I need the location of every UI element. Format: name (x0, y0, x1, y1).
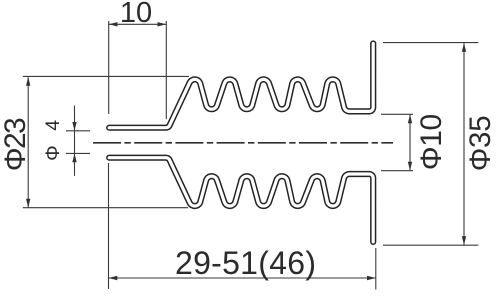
svg-text:10: 10 (120, 0, 152, 29)
svg-text:Φ10: Φ10 (415, 114, 448, 171)
svg-text:Φ35: Φ35 (464, 115, 497, 171)
svg-text:29-51(46): 29-51(46) (175, 245, 316, 281)
svg-text:Φ23: Φ23 (0, 117, 32, 171)
